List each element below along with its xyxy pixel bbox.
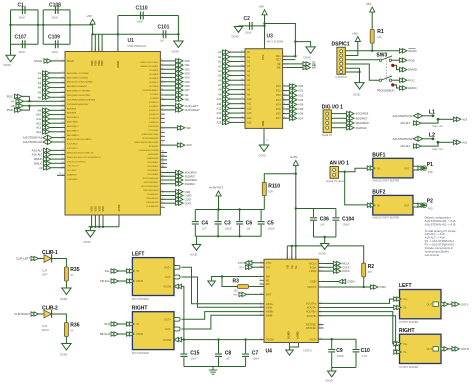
node MCLR input bbox=[34, 59, 65, 64]
svg-text:A5: A5 bbox=[38, 91, 42, 95]
svg-text:79: 79 bbox=[161, 139, 163, 141]
svg-text:VD: VD bbox=[285, 265, 289, 269]
svg-text:I/O1: I/O1 bbox=[185, 63, 191, 67]
power +5V bbox=[87, 14, 96, 24]
op-amp LEFT input buffer bbox=[127, 251, 182, 301]
pin name CE1 bbox=[276, 55, 281, 58]
svg-text:81: 81 bbox=[161, 117, 163, 119]
svg-text:C1RX/RF0: C1RX/RF0 bbox=[148, 126, 159, 128]
U1 left pin stubs bbox=[61, 59, 66, 175]
node SCK bbox=[160, 143, 192, 147]
svg-text:R110: R110 bbox=[268, 183, 280, 189]
svg-text:I/O4: I/O4 bbox=[185, 76, 191, 80]
junction bbox=[183, 338, 247, 340]
ground DGND bbox=[4, 55, 16, 67]
wire bbox=[11, 10, 39, 55]
svg-text:CSDI: CSDI bbox=[185, 191, 191, 194]
svg-text:A7: A7 bbox=[11, 99, 15, 103]
svg-text:C8: C8 bbox=[225, 351, 232, 357]
svg-text:SDO2/CN10/RG8: SDO2/CN10/RG8 bbox=[141, 186, 159, 188]
wire bbox=[264, 174, 296, 183]
U1 left pin names bbox=[67, 72, 101, 181]
svg-text:74: 74 bbox=[62, 117, 64, 119]
svg-text:21: 21 bbox=[62, 157, 64, 159]
svg-text:MCLR: MCLR bbox=[34, 59, 42, 63]
svg-text:A15-ALT: A15-ALT bbox=[400, 121, 410, 125]
svg-text:82: 82 bbox=[161, 59, 163, 61]
svg-text:3: 3 bbox=[319, 280, 320, 282]
svg-text:SCK2/RG6: SCK2/RG6 bbox=[356, 112, 369, 116]
svg-text:1K: 1K bbox=[70, 330, 73, 333]
svg-text:I/O7: I/O7 bbox=[276, 117, 281, 120]
svg-text:100nF: 100nF bbox=[19, 18, 26, 20]
nodes I/O0-I/O7 bbox=[160, 59, 190, 93]
svg-text:A14: A14 bbox=[217, 116, 222, 120]
U4 top pin names bbox=[285, 265, 298, 269]
svg-text:60: 60 bbox=[62, 76, 64, 78]
svg-text:DGND: DGND bbox=[84, 241, 92, 244]
svg-text:14: 14 bbox=[241, 64, 243, 66]
pin name MCLR bbox=[67, 60, 74, 63]
svg-text:100nF: 100nF bbox=[137, 22, 144, 24]
node A15-STDWN-IN1 bbox=[23, 135, 65, 140]
svg-text:AOUTB+: AOUTB+ bbox=[306, 310, 317, 314]
svg-text:C108: C108 bbox=[49, 3, 61, 9]
svg-text:1uF: 1uF bbox=[246, 227, 251, 230]
wire bbox=[345, 172, 368, 205]
svg-text:U3: U3 bbox=[267, 34, 274, 40]
node PGC bbox=[400, 78, 415, 82]
svg-text:AN3/INDX/CN5/RB3: AN3/INDX/CN5/RB3 bbox=[67, 85, 88, 88]
svg-text:FB-IN-R: FB-IN-R bbox=[100, 332, 110, 336]
svg-text:A1: A1 bbox=[38, 71, 42, 75]
capacitor C9 bbox=[328, 339, 344, 367]
svg-text:PAD: PAD bbox=[428, 171, 433, 174]
resistor R110 bbox=[262, 182, 280, 195]
svg-text:P1: P1 bbox=[427, 162, 433, 168]
wire VSS pins bbox=[92, 215, 119, 227]
svg-text:I/O4: I/O4 bbox=[298, 103, 303, 107]
svg-text:U1RX/RF2: U1RX/RF2 bbox=[148, 154, 159, 156]
svg-text:A14: A14 bbox=[247, 117, 252, 120]
svg-text:AINB+: AINB+ bbox=[266, 310, 274, 314]
svg-text:DGND: DGND bbox=[60, 298, 68, 301]
connector AN I/O 1 bbox=[326, 160, 349, 183]
svg-text:OC7/RD6: OC7/RD6 bbox=[149, 86, 159, 88]
wire bbox=[392, 59, 400, 61]
svg-text:AGND: AGND bbox=[319, 253, 326, 256]
node PGD bbox=[400, 58, 415, 62]
svg-text:IN-R: IN-R bbox=[104, 322, 110, 326]
wire bbox=[395, 85, 400, 88]
wire bbox=[363, 277, 365, 287]
wire bbox=[195, 236, 261, 244]
svg-text:XTI: XTI bbox=[239, 265, 244, 269]
capacitor C108 bbox=[49, 3, 61, 20]
svg-text:ANALOG INPUT BUFFER: ANALOG INPUT BUFFER bbox=[372, 180, 399, 183]
svg-text:SCLK: SCLK bbox=[310, 265, 317, 269]
svg-text:XTO: XTO bbox=[266, 261, 271, 265]
svg-text:2: 2 bbox=[319, 266, 320, 268]
svg-text:C10: C10 bbox=[361, 348, 370, 354]
svg-text:VSS: VSS bbox=[94, 206, 98, 211]
svg-text:OC5/RD4: OC5/RD4 bbox=[149, 78, 159, 80]
svg-text:A10: A10 bbox=[217, 97, 222, 101]
svg-text:VDD: VDD bbox=[93, 60, 97, 66]
svg-text:EMUC3/SCK1/INT0/RF6: EMUC3/SCK1/INT0/RF6 bbox=[134, 142, 159, 144]
svg-text:I/O3: I/O3 bbox=[298, 98, 303, 102]
wire bbox=[314, 237, 336, 244]
svg-text:Digital I/O: Digital I/O bbox=[322, 134, 332, 137]
svg-text:23: 23 bbox=[319, 337, 321, 339]
svg-text:DGND: DGND bbox=[232, 36, 240, 39]
svg-text:IN+: IN+ bbox=[404, 342, 409, 346]
svg-text:IN-: IN- bbox=[404, 350, 408, 354]
svg-text:C101: C101 bbox=[158, 25, 170, 31]
nodes A9-A14 bbox=[36, 108, 65, 134]
junction bbox=[295, 173, 297, 248]
LED CLIP-1 with resistor R35 bbox=[16, 250, 80, 301]
svg-text:I/O0: I/O0 bbox=[185, 59, 191, 63]
svg-text:U2RX/CN17/RF4: U2RX/CN17/RF4 bbox=[142, 134, 160, 136]
svg-text:60: 60 bbox=[161, 98, 163, 100]
wire bbox=[318, 307, 393, 309]
wire bbox=[249, 286, 265, 288]
svg-text:A15: A15 bbox=[247, 121, 252, 124]
junction bbox=[9, 24, 71, 26]
svg-text:I/O2: I/O2 bbox=[276, 94, 281, 97]
svg-text:A16-STDWN-IN2: A16-STDWN-IN2 bbox=[393, 137, 413, 141]
svg-text:I/O7: I/O7 bbox=[298, 116, 303, 120]
junction bbox=[358, 71, 360, 73]
svg-text:A16: A16 bbox=[462, 140, 467, 144]
svg-text:29: 29 bbox=[62, 71, 64, 73]
U3 pin stubs bbox=[241, 44, 288, 133]
svg-text:R3: R3 bbox=[233, 279, 240, 285]
svg-text:COFS: COFS bbox=[185, 202, 192, 205]
svg-text:25: 25 bbox=[319, 285, 321, 287]
svg-text:AN12/RB12: AN12/RB12 bbox=[67, 125, 79, 128]
svg-text:AN9/RB9: AN9/RB9 bbox=[67, 112, 77, 115]
wire bbox=[371, 12, 373, 29]
pin names VSS/AVSS bbox=[90, 204, 121, 211]
svg-text:OE: OE bbox=[185, 93, 189, 97]
svg-text:AOUTB-: AOUTB- bbox=[306, 314, 316, 318]
svg-text:78: 78 bbox=[62, 95, 64, 97]
svg-text:SDO2/RG8: SDO2/RG8 bbox=[356, 121, 370, 125]
svg-text:OUT: OUT bbox=[404, 203, 410, 207]
op-amp RIGHT output buffer bbox=[394, 328, 469, 369]
svg-text:C5: C5 bbox=[267, 220, 274, 226]
svg-text:38: 38 bbox=[241, 97, 243, 99]
svg-text:R35: R35 bbox=[70, 267, 79, 273]
svg-text:GND: GND bbox=[261, 121, 265, 127]
nodes U3 I/O0-I/O7 bbox=[276, 84, 304, 121]
svg-text:LEFT: LEFT bbox=[42, 275, 48, 277]
power +5V bbox=[352, 32, 360, 42]
svg-text:SDO2/RG8: SDO2/RG8 bbox=[185, 179, 198, 182]
svg-text:C6: C6 bbox=[246, 220, 253, 226]
node MCLR bbox=[400, 49, 417, 53]
node OE bbox=[283, 62, 316, 66]
svg-text:AN13/RB13: AN13/RB13 bbox=[67, 129, 79, 132]
op-amp BUF1 bbox=[367, 153, 433, 183]
svg-text:OUT: OUT bbox=[427, 347, 433, 351]
svg-text:SCK2/CN8/RG6: SCK2/CN8/RG6 bbox=[143, 178, 160, 180]
wire bbox=[318, 316, 395, 352]
svg-text:SDOUT: SDOUT bbox=[307, 285, 316, 289]
op-amp U1 IC dsPIC30F6012A bbox=[65, 38, 160, 215]
svg-text:AGND: AGND bbox=[190, 254, 197, 257]
svg-text:RIGHT: RIGHT bbox=[42, 330, 50, 332]
svg-text:AINA-: AINA- bbox=[266, 305, 273, 309]
svg-text:I/O5: I/O5 bbox=[298, 107, 303, 111]
node IN-L bbox=[105, 269, 127, 273]
svg-text:WE: WE bbox=[185, 97, 190, 101]
svg-text:CSDI: CSDI bbox=[379, 285, 385, 289]
svg-text:63: 63 bbox=[161, 131, 163, 133]
svg-text:AN10/RB10: AN10/RB10 bbox=[67, 116, 79, 119]
svg-text:5: 5 bbox=[260, 313, 261, 315]
capacitor C3 bbox=[215, 210, 233, 237]
node A0 bbox=[39, 166, 65, 170]
svg-text:LEFT: LEFT bbox=[399, 283, 412, 289]
svg-text:17: 17 bbox=[62, 174, 64, 176]
nodes SCK2-SS2 bbox=[160, 170, 197, 186]
svg-text:C4: C4 bbox=[202, 220, 209, 226]
svg-text:A9: A9 bbox=[38, 108, 42, 112]
svg-text:+5V: +5V bbox=[259, 5, 264, 9]
svg-text:37: 37 bbox=[62, 121, 64, 123]
svg-text:DGND: DGND bbox=[172, 51, 180, 54]
svg-text:INT1/RA12: INT1/RA12 bbox=[148, 161, 160, 164]
svg-text:25: 25 bbox=[161, 143, 163, 145]
svg-text:20: 20 bbox=[241, 111, 243, 113]
svg-text:PAD: PAD bbox=[428, 208, 433, 211]
U4 right pin names bbox=[306, 262, 317, 342]
svg-text:C110: C110 bbox=[136, 6, 148, 12]
node CLIP-LEFT bbox=[160, 104, 198, 108]
svg-text:28: 28 bbox=[241, 83, 243, 85]
wire bbox=[318, 338, 356, 340]
svg-text:M0: M0 bbox=[266, 282, 270, 286]
svg-text:A8: A8 bbox=[218, 88, 222, 92]
svg-text:C9: C9 bbox=[336, 348, 343, 354]
svg-text:L2: L2 bbox=[429, 132, 435, 138]
svg-text:AN I/O 1: AN I/O 1 bbox=[330, 160, 350, 166]
svg-text:A+5V-FILT: A+5V-FILT bbox=[209, 186, 223, 190]
svg-text:SCK2/RG6: SCK2/RG6 bbox=[185, 172, 197, 175]
svg-text:+5V: +5V bbox=[352, 32, 357, 36]
node A16-ALT bbox=[32, 152, 65, 156]
wire bbox=[177, 16, 179, 42]
svg-text:17: 17 bbox=[260, 282, 262, 284]
svg-text:A11: A11 bbox=[217, 102, 222, 106]
svg-text:100nF: 100nF bbox=[245, 33, 252, 35]
wire bbox=[345, 68, 359, 82]
svg-text:U4: U4 bbox=[266, 348, 273, 354]
wire stubs bbox=[318, 325, 323, 328]
pin name VCC bbox=[261, 54, 265, 60]
svg-text:FB-IN: FB-IN bbox=[136, 332, 143, 336]
svg-text:83: 83 bbox=[161, 88, 163, 90]
svg-text:AN11/RB11: AN11/RB11 bbox=[67, 121, 79, 124]
wire AVDD bbox=[117, 16, 119, 52]
svg-text:I/O2: I/O2 bbox=[185, 67, 191, 71]
svg-text:33: 33 bbox=[161, 166, 163, 168]
node A7 bbox=[11, 99, 65, 103]
svg-text:RST: RST bbox=[234, 295, 239, 297]
svg-text:100nF: 100nF bbox=[268, 227, 275, 230]
svg-text:I/O6: I/O6 bbox=[185, 84, 191, 88]
svg-text:+5V: +5V bbox=[366, 2, 371, 6]
svg-text:38: 38 bbox=[161, 67, 163, 69]
svg-text:A3: A3 bbox=[218, 64, 222, 68]
wire bbox=[92, 24, 94, 34]
svg-text:IN+: IN+ bbox=[404, 297, 409, 301]
power A+5V-FILT bbox=[209, 186, 223, 196]
svg-text:16: 16 bbox=[241, 116, 243, 118]
svg-text:6: 6 bbox=[260, 302, 261, 304]
svg-text:U1: U1 bbox=[128, 38, 135, 44]
svg-text:DGND: DGND bbox=[259, 155, 267, 158]
svg-text:A0: A0 bbox=[39, 166, 43, 170]
svg-text:C1TX/RF1: C1TX/RF1 bbox=[148, 130, 159, 132]
wire bbox=[181, 312, 264, 320]
node WE bbox=[283, 65, 317, 69]
svg-text:IN: IN bbox=[377, 166, 380, 170]
svg-text:C107: C107 bbox=[15, 35, 27, 41]
capacitor C110 bbox=[118, 6, 178, 24]
node CSCK bbox=[318, 265, 349, 269]
svg-text:CSCK: CSCK bbox=[342, 265, 349, 269]
svg-text:CSDO/RG13: CSDO/RG13 bbox=[146, 198, 159, 200]
svg-text:DSPIC1: DSPIC1 bbox=[332, 41, 350, 47]
ground DGND bbox=[232, 27, 243, 39]
svg-text:SDI2/RG7: SDI2/RG7 bbox=[356, 116, 368, 120]
svg-text:MR: MR bbox=[266, 275, 270, 279]
svg-text:34: 34 bbox=[283, 103, 285, 105]
svg-text:VCOM: VCOM bbox=[163, 338, 171, 342]
node CSDO bbox=[318, 279, 354, 283]
capacitor C104 bbox=[332, 209, 354, 238]
U1 right pin stubs bbox=[160, 59, 165, 207]
svg-text:SCL/RG2: SCL/RG2 bbox=[67, 170, 77, 172]
svg-text:BUF1: BUF1 bbox=[372, 153, 385, 159]
svg-text:AN0/VREF+/CN2/RB0: AN0/VREF+/CN2/RB0 bbox=[67, 72, 90, 75]
svg-text:IN-L: IN-L bbox=[105, 269, 111, 273]
svg-text:C109: C109 bbox=[48, 35, 60, 41]
ground AGND bbox=[208, 281, 216, 286]
junction bbox=[331, 338, 333, 340]
svg-text:47K: 47K bbox=[368, 271, 373, 274]
pin name GND bbox=[261, 121, 265, 127]
svg-text:84: 84 bbox=[161, 174, 163, 176]
svg-text:37: 37 bbox=[241, 50, 243, 52]
ground AGND bbox=[319, 244, 329, 256]
node CLIP-RIGHT bbox=[160, 108, 200, 112]
svg-text:1uF: 1uF bbox=[226, 358, 231, 361]
svg-text:A10: A10 bbox=[36, 113, 41, 117]
svg-text:11: 11 bbox=[260, 310, 262, 312]
svg-text:EMUC: EMUC bbox=[408, 86, 417, 90]
capacitor C10 bbox=[353, 339, 370, 367]
U1 supply pin stubs bbox=[92, 47, 119, 220]
wire bbox=[318, 312, 393, 344]
svg-text:FB-IN-L: FB-IN-L bbox=[100, 279, 110, 283]
svg-text:MCLK: MCLK bbox=[342, 262, 349, 266]
svg-text:22: 22 bbox=[319, 269, 321, 271]
svg-text:VSS: VSS bbox=[90, 206, 94, 211]
svg-text:I/O0: I/O0 bbox=[298, 84, 303, 88]
svg-text:17: 17 bbox=[62, 113, 64, 115]
svg-text:18: 18 bbox=[62, 149, 64, 151]
svg-text:C15: C15 bbox=[190, 351, 199, 357]
wire bbox=[181, 277, 264, 307]
svg-text:INT4/RA15: INT4/RA15 bbox=[148, 173, 160, 176]
wire bbox=[296, 246, 364, 263]
svg-text:I/O3: I/O3 bbox=[185, 72, 191, 76]
svg-text:PGC/EMUC/AN6/OCFA/RB6: PGC/EMUC/AN6/OCFA/RB6 bbox=[67, 98, 96, 101]
pin names VDD/AVDD bbox=[90, 60, 120, 68]
svg-text:A14: A14 bbox=[36, 130, 41, 134]
wire bbox=[181, 267, 264, 304]
svg-text:DGND: DGND bbox=[353, 94, 361, 97]
ground DGND bbox=[84, 231, 96, 244]
svg-text:SDA/RG3: SDA/RG3 bbox=[67, 174, 77, 177]
svg-text:100nF: 100nF bbox=[337, 355, 344, 358]
svg-text:20: 20 bbox=[260, 265, 262, 267]
svg-text:CLIP-RIGHT: CLIP-RIGHT bbox=[14, 312, 30, 316]
svg-text:19: 19 bbox=[62, 91, 64, 93]
svg-text:OUT-: OUT- bbox=[165, 275, 171, 279]
svg-text:FB-IN: FB-IN bbox=[136, 279, 143, 283]
svg-text:CSCK/RG14: CSCK/RG14 bbox=[146, 202, 159, 204]
svg-text:VSS: VSS bbox=[97, 206, 101, 211]
svg-text:84: 84 bbox=[62, 109, 64, 111]
svg-text:DGND: DGND bbox=[287, 331, 291, 339]
svg-text:AN1/VREF-/CN3/RB1: AN1/VREF-/CN3/RB1 bbox=[67, 76, 89, 79]
svg-text:OSC2/CLKO/RC15: OSC2/CLKO/RC15 bbox=[67, 161, 87, 163]
svg-text:83: 83 bbox=[161, 151, 163, 153]
capacitor C8 bbox=[215, 340, 231, 367]
wire bbox=[181, 315, 264, 329]
svg-text:15: 15 bbox=[161, 112, 163, 114]
ground AGND bbox=[326, 371, 336, 383]
wire bbox=[43, 10, 70, 44]
pin name WE bbox=[277, 67, 281, 70]
svg-text:C1RX/RF0: C1RX/RF0 bbox=[67, 179, 78, 181]
svg-text:PGD: PGD bbox=[7, 108, 13, 112]
ground DGND bbox=[353, 83, 364, 97]
svg-text:A13: A13 bbox=[36, 126, 41, 130]
svg-text:OUT+: OUT+ bbox=[164, 266, 171, 270]
svg-text:3: 3 bbox=[260, 275, 261, 277]
svg-text:12: 12 bbox=[241, 121, 243, 123]
svg-text:A2: A2 bbox=[218, 60, 222, 64]
svg-text:MCLR: MCLR bbox=[408, 49, 416, 53]
svg-text:DSPIC30F6012A: DSPIC30F6012A bbox=[128, 45, 147, 48]
svg-text:T2CK/RC1: T2CK/RC1 bbox=[67, 144, 78, 146]
svg-text:RIGHT: RIGHT bbox=[399, 328, 415, 334]
svg-text:INT2/RA13: INT2/RA13 bbox=[148, 165, 160, 168]
capacitor C7 bbox=[242, 340, 260, 367]
wire bbox=[345, 71, 359, 73]
svg-text:R36: R36 bbox=[70, 323, 79, 329]
wire bbox=[339, 168, 368, 172]
svg-text:IC3/RD10: IC3/RD10 bbox=[149, 102, 159, 104]
wire bbox=[345, 59, 379, 61]
